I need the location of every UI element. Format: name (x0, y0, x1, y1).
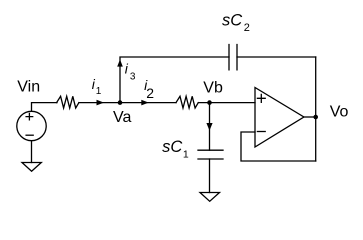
capacitor C2 (229, 45, 237, 70)
op-amp U1 (255, 88, 304, 148)
wire (315, 57, 317, 161)
resistor R1 (57, 96, 79, 108)
label i1 (92, 76, 102, 97)
wire (120, 57, 229, 103)
svg-text:3: 3 (130, 72, 136, 83)
svg-text:2: 2 (244, 22, 250, 34)
svg-text:1: 1 (183, 149, 189, 161)
node Vo (313, 115, 318, 120)
wire (198, 102, 255, 104)
label i2 (144, 77, 154, 101)
label sC2 (222, 12, 250, 34)
wire (209, 159, 211, 193)
svg-text:Va: Va (113, 109, 131, 126)
node Vb (207, 100, 212, 105)
svg-text:sC: sC (222, 12, 242, 30)
ground (below C1) (200, 193, 220, 202)
label i3 (125, 61, 136, 83)
resistor R2 (176, 96, 198, 108)
capacitor C1 (198, 150, 223, 159)
arrow i (down into C1) (206, 123, 212, 131)
svg-text:2: 2 (146, 85, 154, 101)
wire (79, 102, 176, 104)
svg-text:1: 1 (96, 86, 102, 97)
node Va (118, 100, 123, 105)
wire (241, 132, 316, 161)
svg-text:Vb: Vb (203, 80, 223, 97)
wire (209, 103, 211, 151)
ground (below V1) (22, 163, 41, 172)
wire (32, 103, 58, 112)
svg-text:Vin: Vin (17, 79, 40, 96)
voltage source V1 (Vin) (17, 111, 46, 140)
wire (237, 56, 316, 58)
arrow i2 (141, 100, 148, 106)
wire (31, 141, 33, 163)
arrow i3 (117, 59, 123, 66)
wire (304, 116, 316, 118)
label sC1 (162, 138, 189, 161)
svg-text:Vo: Vo (330, 104, 349, 121)
arrow i1 (97, 100, 105, 106)
svg-text:sC: sC (162, 138, 182, 156)
